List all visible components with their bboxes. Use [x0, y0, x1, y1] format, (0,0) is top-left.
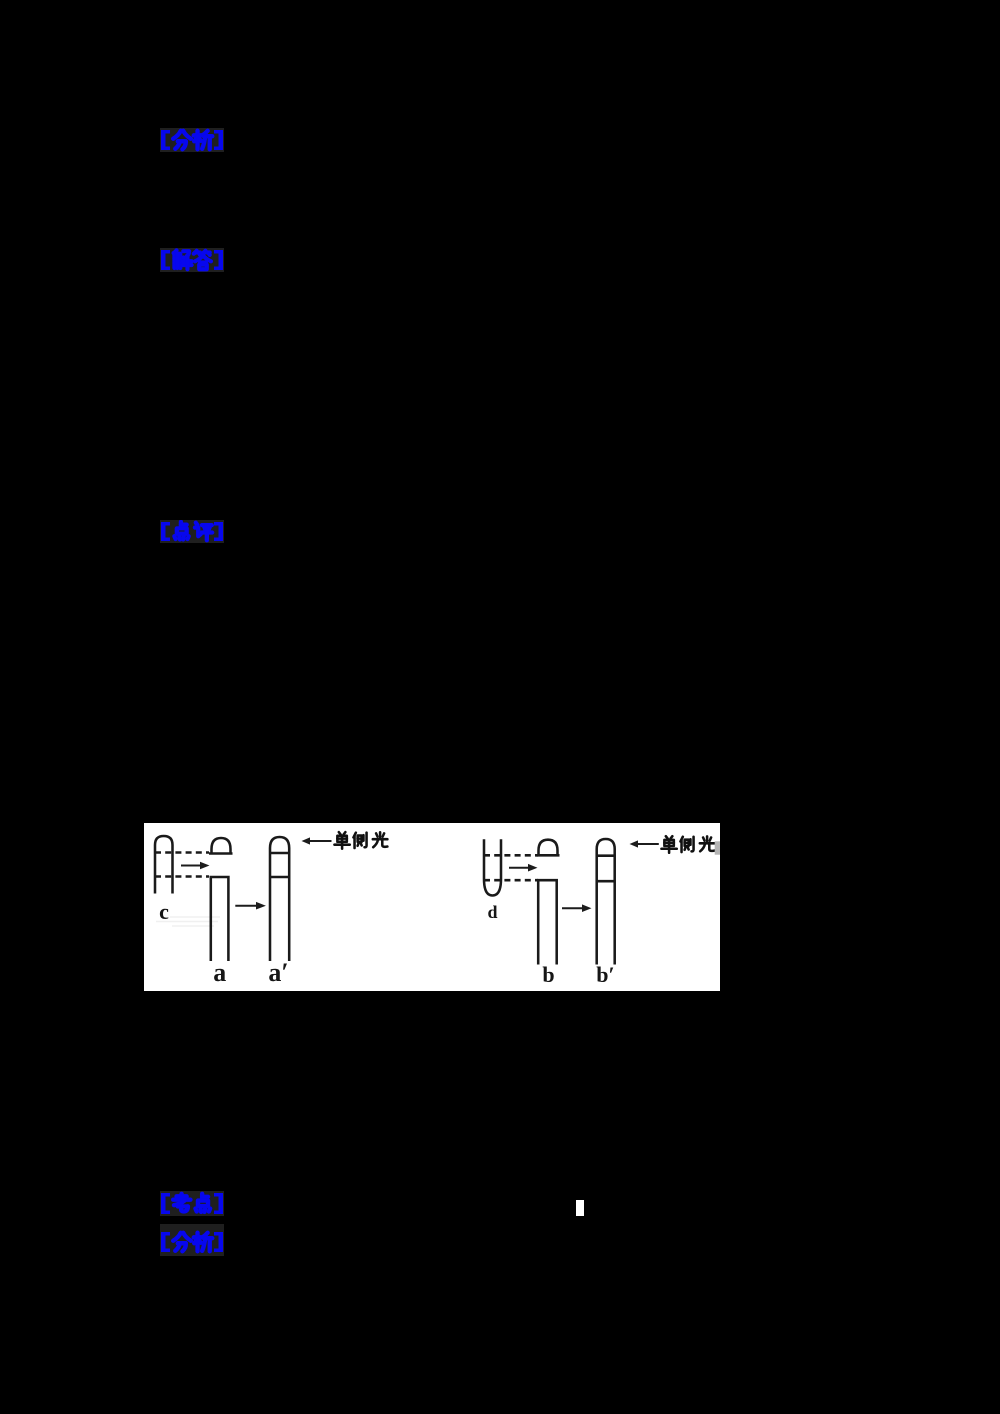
tag marker [fen-xi] #1 — [160, 128, 224, 152]
cut tip c (inverted-U cap) — [155, 836, 173, 894]
tag marker [kao-dian] #4 — [160, 1191, 224, 1216]
tag marker [dian-ping] #3 — [160, 520, 224, 543]
arrow c to a — [181, 865, 200, 867]
white speck (cursor artifact) — [576, 1200, 584, 1216]
base line under dome a — [209, 852, 233, 855]
svg-text:d: d — [487, 902, 497, 922]
dashed transfer line upper-right — [484, 854, 538, 857]
glyph definitions for CJK characters drawn as strokes — [0, 0, 1, 1]
white diagram panel — [144, 823, 720, 991]
tag marker [jie-da] #2 — [160, 248, 224, 272]
letter labels — [159, 899, 615, 987]
test tube d (U shape) — [484, 839, 501, 895]
base line under dome b — [537, 854, 560, 857]
stump b (decapitated coleoptile) — [538, 880, 557, 964]
label dan-ce-guang (unilateral light) right — [661, 836, 714, 853]
arrow b to b' — [562, 907, 582, 909]
dashed transfer line upper-left — [155, 851, 209, 854]
dome of detached tip on stump a — [212, 838, 231, 854]
junction lines on b' — [597, 854, 615, 857]
dome of tip on stump b — [539, 840, 558, 856]
stump a (decapitated coleoptile) — [211, 877, 229, 961]
tag marker [fen-xi] #5 — [160, 1224, 224, 1256]
svg-text:b′: b′ — [596, 962, 614, 987]
faint watermark — [156, 917, 220, 926]
svg-text:b: b — [542, 962, 554, 987]
light arrow right group — [638, 843, 659, 845]
dashed transfer line lower-left — [155, 875, 209, 878]
svg-text:a′: a′ — [268, 958, 288, 987]
label dan-ce-guang (unilateral light) left — [334, 832, 387, 849]
seedling a' (tip replaced on stump) — [270, 837, 289, 961]
light arrow left group — [310, 840, 332, 842]
arrow d to b — [509, 867, 528, 869]
junction lines on a' — [270, 852, 289, 855]
svg-text:c: c — [159, 899, 169, 924]
dashed transfer line lower-right — [484, 879, 538, 882]
svg-text:a: a — [213, 958, 226, 987]
seedling b' (tip replaced on stump) — [597, 839, 615, 965]
arrow a to a' — [235, 905, 256, 907]
scanner gray patch right edge — [715, 841, 720, 854]
